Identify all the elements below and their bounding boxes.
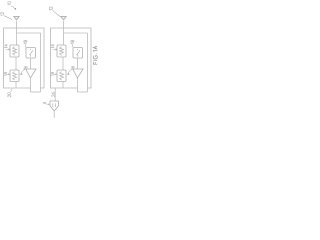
antenna ANT1 (14, 17, 20, 21)
filter F1 zigzag element (13, 47, 17, 56)
label 104b with leader (left filter F2) (20, 66, 28, 75)
filter F3 zigzag element (60, 47, 64, 56)
label 24 with arrow (combiner) (43, 102, 50, 105)
wire U bottom (left block) (31, 91, 41, 93)
antenna ANT2 (61, 17, 67, 21)
wire right vertical (left block) (40, 33, 42, 92)
wire SW1 to amplifier A1 (30, 58, 32, 69)
filter F2 zigzag element (13, 72, 17, 80)
wire U bottom (right block) (78, 91, 88, 93)
label 10 with curved arrow (top-left) (8, 2, 17, 11)
wire SW2 to amplifier A2 (77, 58, 79, 69)
module box 2 (right outer box) (51, 28, 92, 88)
switch SW2 (right) (73, 48, 83, 59)
wire T1 output (53, 111, 55, 118)
label A1 tick (24, 68, 25, 69)
amplifier A2 (right triangle) (73, 69, 83, 78)
wire F3 to F4 (62, 57, 64, 70)
wire F1 to F2 (15, 57, 17, 70)
figure title FIG. 1A (rotated) (93, 46, 97, 64)
combiner T1 internal bars (53, 103, 56, 107)
switch SW1 lever and contacts (29, 49, 33, 57)
filter F4 zigzag element (60, 72, 64, 80)
label 106b with curly leader (right switch) (71, 40, 74, 47)
label 106a with curly leader (left switch) (24, 40, 27, 47)
label 102b (right antenna) (49, 7, 60, 17)
wire F2 to bottom edge (15, 82, 17, 89)
wire to combiner (54, 88, 56, 101)
label 104d with leader (right filter F4) (67, 66, 75, 75)
wire F4 to bottom edge (62, 82, 64, 89)
wire right vertical (right block) (87, 33, 89, 92)
module box 1 (left outer box) (4, 28, 45, 88)
combiner/shield element T1 (50, 101, 59, 111)
switch SW2 lever and contacts (76, 49, 80, 57)
filter F4 (right bottom box) (57, 70, 66, 82)
filter F3 (right top box) (57, 45, 66, 57)
wire branch (right block) (64, 32, 88, 34)
label 102a (left antenna) (1, 12, 13, 19)
label 14b with arrow (left filter F2) (4, 72, 7, 76)
wire antenna ANT2 stem (63, 21, 65, 45)
filter F2 (left bottom box) (10, 70, 19, 82)
label 22 beside combiner wire (52, 92, 55, 96)
label 104c with arrow (right filter F3) (51, 44, 57, 50)
wire A2 output down to U loop (77, 78, 79, 92)
label 104a with arrow (left filter F1) (5, 44, 11, 50)
filter F1 (left top box) (10, 45, 19, 57)
wire antenna ANT1 stem (16, 21, 18, 45)
amplifier A1 (left triangle) (26, 69, 36, 78)
label 110 below left module (8, 89, 13, 97)
label 14d with arrow (right filter F4) (51, 72, 54, 76)
switch SW1 (left) (26, 48, 36, 59)
wire A1 output down to U loop (30, 78, 32, 92)
wire branch from antenna line to TX loop (left) (17, 32, 41, 34)
